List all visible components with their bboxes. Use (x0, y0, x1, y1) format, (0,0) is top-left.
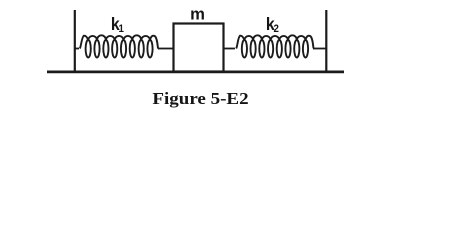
wire block to spring k2 (224, 48, 236, 50)
spring k2 (236, 35, 314, 57)
spring k1 (80, 35, 159, 57)
svg-text:m: m (190, 5, 205, 24)
block m (174, 24, 224, 72)
caption (0, 90, 401, 109)
svg-text:1: 1 (118, 24, 124, 36)
wire spring k1 to block (158, 48, 174, 50)
floor (47, 71, 344, 74)
wire wall to spring k1 (75, 48, 79, 50)
wire spring k2 to wall (313, 48, 326, 50)
label k2 (266, 14, 279, 35)
svg-text:2: 2 (273, 24, 279, 36)
right wall (325, 10, 327, 72)
label m (190, 5, 205, 24)
label k1 (111, 14, 124, 35)
left wall (74, 10, 76, 72)
